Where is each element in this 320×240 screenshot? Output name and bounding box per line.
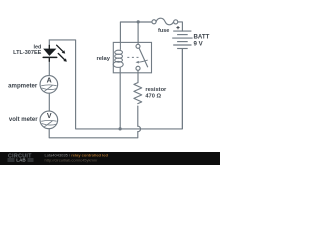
svg-text:resistor: resistor [145, 87, 167, 93]
svg-text:fuse: fuse [158, 28, 169, 34]
svg-text:A: A [47, 78, 52, 85]
svg-text:470 Ω: 470 Ω [145, 93, 161, 99]
svg-text:LTL-307EE: LTL-307EE [13, 50, 42, 56]
svg-text:LAB: LAB [16, 158, 26, 163]
svg-text:BATT: BATT [194, 33, 210, 40]
svg-text:relay: relay [96, 56, 110, 62]
svg-text:http://circuitlab.com/c45ykmn/: http://circuitlab.com/c45ykmn/ [45, 157, 99, 162]
svg-text:ampmeter: ampmeter [8, 83, 38, 90]
svg-text:V: V [47, 113, 52, 120]
svg-text:volt meter: volt meter [9, 117, 38, 123]
svg-text:9 V: 9 V [194, 41, 204, 48]
